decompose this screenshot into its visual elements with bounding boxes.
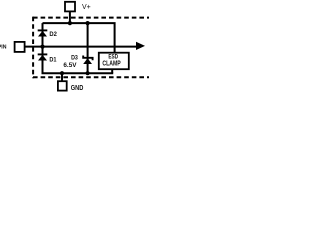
node: GND rail / D3 junction: [86, 71, 90, 75]
svg-text:D1: D1: [49, 57, 56, 64]
svg-text:V+: V+: [82, 2, 91, 11]
background: [0, 0, 149, 95]
node: V+ rail / D3 junction: [86, 21, 90, 25]
node: V+ rail / V+ stem junction: [68, 21, 72, 25]
terminal GND pad: [58, 81, 67, 90]
wire: PIN signal wire to internal circuit: [25, 46, 137, 48]
esd clamp block U1: [99, 53, 129, 69]
wire: GND stem: [61, 73, 63, 80]
wire: ESD clamp bottom stem: [111, 70, 113, 73]
terminal V+ pad: [65, 2, 75, 12]
svg-text:CLAMP: CLAMP: [102, 61, 121, 68]
svg-text:D3: D3: [71, 54, 78, 61]
svg-text:PIN: PIN: [0, 45, 7, 51]
svg-text:6.5V: 6.5V: [63, 62, 77, 69]
arrowhead on signal wire: [136, 42, 145, 50]
wire: diode column (D2/D1): [42, 23, 44, 73]
IC boundary dashed bottom: [33, 76, 149, 78]
svg-text:ESD: ESD: [108, 53, 118, 60]
node: GND rail / GND stem junction: [60, 71, 64, 75]
terminal PIN pad: [15, 42, 25, 52]
IC boundary dashed top: [33, 17, 149, 19]
wire: V+ top rail with right drop to ESD clamp: [43, 23, 115, 52]
IC boundary dashed left: [32, 17, 34, 79]
wire: bottom ground rail: [42, 72, 114, 74]
wire: V+ pin stem: [69, 12, 71, 23]
svg-text:D2: D2: [49, 31, 57, 38]
diode D1: [38, 54, 48, 60]
svg-text:GND: GND: [71, 83, 84, 92]
diode D2: [38, 30, 48, 36]
wire: D3 zener column: [87, 23, 89, 73]
zener diode D3: [83, 56, 92, 65]
node: PIN wire / diode column junction: [40, 45, 44, 49]
